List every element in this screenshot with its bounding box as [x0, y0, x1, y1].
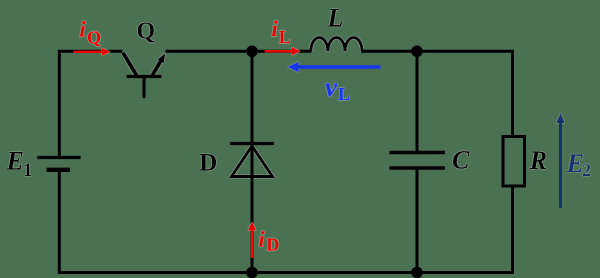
junction node bottom capacitor [411, 267, 423, 278]
svg-text:i: i [272, 16, 279, 41]
wire: R bottom, bottom rail, left rail lower [59, 171, 512, 273]
current arrow iD head [248, 222, 256, 231]
svg-text:v: v [325, 72, 338, 102]
svg-text:i: i [259, 227, 266, 252]
battery E1 short plate [47, 168, 70, 172]
current arrow iL shaft [265, 50, 294, 53]
transistor Q emitter diagonal [152, 61, 161, 76]
wire: capacitor branch lower [416, 169, 419, 273]
transistor Q collector diagonal [123, 53, 137, 76]
transistor Q base bar [127, 75, 162, 78]
black curved/diagonal ink and labels (soft white AA halo) [6, 4, 548, 182]
wire: inductor end to top-right corner down to R top [361, 51, 513, 137]
voltage arrow E2 shaft [559, 121, 562, 208]
current arrow iD shaft [251, 230, 254, 259]
capacitor C bottom plate [390, 166, 446, 169]
svg-text:1: 1 [23, 160, 33, 181]
voltage arrow E2 head [556, 113, 565, 123]
svg-text:i: i [80, 17, 87, 42]
capacitor C top plate [390, 151, 446, 154]
inductor L coils [311, 37, 362, 51]
wire: left rail + top-left segment to Q collector [59, 51, 122, 156]
diode D triangle [232, 146, 273, 177]
voltage arrow vL head [288, 62, 299, 73]
svg-text:R: R [529, 146, 547, 175]
svg-text:Q: Q [137, 19, 156, 45]
svg-text:E: E [6, 147, 24, 176]
svg-text:C: C [452, 146, 470, 175]
junction node B (L/C/R, top) [411, 46, 423, 58]
wire: Q emitter to inductor start (through node A) [166, 50, 312, 53]
junction node A (switch/diode, top) [246, 46, 258, 58]
current arrow iL head [292, 47, 301, 55]
wire: capacitor branch upper [416, 51, 419, 152]
coloured annotation arrows + labels (over wires, soft halo) [80, 16, 592, 255]
current arrow iQ head [102, 48, 111, 56]
svg-text:L: L [279, 27, 291, 47]
svg-text:D: D [267, 235, 280, 255]
battery E1 long plate [37, 156, 80, 159]
transistor Q base lead [143, 78, 146, 98]
svg-text:Q: Q [87, 28, 101, 48]
svg-text:L: L [327, 4, 344, 33]
svg-text:D: D [199, 147, 217, 176]
svg-text:2: 2 [582, 160, 591, 180]
transistor Q emitter arrowhead [157, 53, 165, 63]
junction node bottom diode [246, 267, 258, 278]
diode D cathode bar [230, 142, 274, 145]
wire: diode branch vertical [251, 51, 254, 272]
resistor R box [503, 137, 525, 187]
svg-text:L: L [338, 84, 350, 104]
voltage arrow vL shaft [297, 65, 381, 69]
current arrow iQ shaft [73, 51, 103, 53]
